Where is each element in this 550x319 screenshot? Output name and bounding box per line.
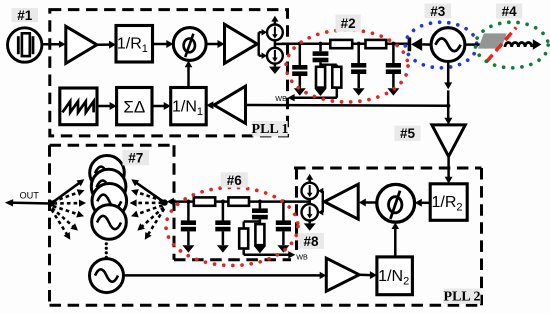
wire VCO down to feedback node	[447, 62, 450, 85]
PLL1 dashed boundary box	[50, 10, 288, 136]
ground	[294, 88, 306, 95]
output arrow #4	[532, 44, 534, 47]
buffer amp A2	[225, 24, 258, 63]
svg-text:#3: #3	[430, 4, 446, 19]
series resistor R1 of filter #6	[194, 197, 215, 205]
svg-text:WB: WB	[296, 253, 308, 262]
oscillator bank #7: stacked oscillators	[90, 156, 125, 191]
resistor Rb (to WB port), filter #6	[239, 229, 248, 249]
VCO #3	[431, 28, 465, 62]
label #6	[221, 172, 248, 187]
wire 1/R1 to phase detector	[153, 43, 168, 46]
label #1	[12, 8, 39, 22]
PLL2 dashed boundary (left edge of right section)	[295, 168, 298, 250]
wire A4 to 1/N2	[359, 273, 371, 276]
ground	[254, 246, 266, 253]
svg-text:#4: #4	[502, 4, 518, 19]
microstrip slab (gray parallelogram) #4	[478, 33, 507, 48]
wire PFD1 to buffer A2	[206, 43, 218, 46]
resistor Ra (to ground), filter #2	[316, 67, 325, 88]
svg-text:#8: #8	[303, 234, 319, 249]
fork wires A2 to charge pump CP1	[258, 32, 260, 55]
vertical ellipsis dots	[105, 242, 108, 245]
buffer amp A3 (left-pointing)	[324, 184, 358, 219]
wire 1/R2 to PFD2	[421, 202, 430, 205]
divider 1/N1	[171, 88, 207, 125]
wire A1 to 1/R1	[97, 43, 110, 46]
svg-text:#7: #7	[128, 151, 143, 166]
svg-text:ΣΔ: ΣΔ	[123, 97, 145, 116]
capacitor C3 of filter #2	[392, 44, 395, 64]
green dotted ellipse around #4	[475, 22, 548, 68]
loop filter #2 top wire	[282, 42, 408, 45]
label #5	[394, 126, 420, 141]
right fan: dashed selection arrows	[136, 192, 163, 201]
arrow into buffer #5	[444, 118, 452, 125]
reference oscillator (bottom of bank)	[90, 259, 124, 293]
sawtooth modulation source	[60, 88, 97, 125]
svg-text:#1: #1	[17, 8, 33, 23]
PLL2 dashed boundary (right + bottom edges)	[480, 168, 483, 305]
ground	[315, 89, 327, 96]
buffer amp A1	[66, 26, 97, 63]
left fan: dashed selection arrows	[53, 192, 80, 202]
OUT wire and arrow	[9, 201, 52, 204]
svg-text:OUT: OUT	[20, 191, 40, 201]
svg-text:#5: #5	[400, 126, 416, 141]
fork wires A3 to charge pump CP2	[322, 191, 324, 212]
jog wire to parallel resistor, filter #2	[321, 63, 337, 65]
svg-text:#2: #2	[341, 16, 356, 31]
label #4	[496, 4, 522, 19]
WB output wire of filter #6	[244, 254, 290, 257]
charge pump CP2 (current sources) #8	[306, 174, 313, 180]
wire crystal to buffer A1	[42, 43, 60, 46]
ground	[353, 88, 365, 95]
series resistor R1 of filter #2	[330, 40, 352, 48]
series capacitor of RC branch, filter #6	[259, 202, 262, 209]
ground	[387, 88, 399, 95]
svg-text:PLL 1: PLL 1	[252, 122, 289, 137]
capacitor C2 of filter #2	[357, 44, 360, 64]
left fan: solid arrow to top oscillator	[51, 182, 80, 203]
wire VCO to output network #4	[465, 43, 480, 46]
feedback buffer (left-pointing)	[214, 86, 246, 123]
series resistor R2 of filter #2	[366, 40, 387, 48]
inductor #4	[505, 42, 532, 47]
wire 1/N2 up to PFD2	[394, 228, 397, 257]
wire CP2 output into filter #6	[284, 200, 310, 203]
ground	[308, 221, 311, 224]
wire reference osc to buffer A4	[124, 274, 321, 277]
red dotted ellipse around filter #2	[286, 30, 408, 102]
series resistor R2 of filter #6	[228, 197, 249, 205]
ground	[217, 245, 229, 252]
ground	[274, 64, 277, 67]
feedback wire to PLL1 divider buffer	[246, 104, 449, 107]
resistor Rb (to WB port), filter #2	[332, 67, 341, 88]
label #8	[298, 233, 324, 249]
wire #5 to 1/R2	[447, 156, 450, 177]
ground	[277, 245, 289, 252]
blue dotted ellipse around VCO #3	[405, 22, 477, 68]
red dotted ellipse around filter #6	[166, 188, 298, 266]
node junction dots on filter #2	[298, 42, 302, 46]
wire feedback into 1/N1	[212, 104, 215, 107]
node junction dots on filter #6	[186, 200, 190, 204]
divider 1/R2	[430, 184, 467, 221]
capacitor C1 of filter #6	[187, 202, 190, 221]
sigma-delta modulator	[117, 88, 152, 125]
phase detector PFD1	[173, 28, 206, 61]
capacitor C1 of filter #2	[299, 44, 302, 65]
PLL2 dashed boundary (top of right section)	[294, 167, 482, 170]
wire 1/N1 up to PFD1	[187, 66, 190, 88]
left selection node	[48, 200, 54, 206]
filter #6 top wire with output arrow to oscillator bank	[173, 200, 285, 203]
label #7	[123, 150, 150, 165]
jog wire to parallel resistor, filter #6	[244, 220, 260, 222]
svg-text:#6: #6	[227, 173, 243, 188]
divider 1/R1	[116, 26, 153, 63]
right fan: solid arrow to top oscillator	[135, 182, 164, 203]
feedback node junction	[446, 104, 450, 108]
buffer amp A4	[326, 258, 359, 291]
capacitor C2 of filter #6	[222, 202, 225, 221]
series capacitor of RC branch, filter #2	[319, 44, 322, 52]
PLL2 dashed boundary (bottom of #6 box)	[174, 258, 291, 261]
capacitor C4 of filter #6	[282, 202, 285, 221]
resistor Ra (to ground), filter #6	[255, 224, 264, 245]
label #3	[425, 4, 452, 19]
diode at VCO input	[408, 37, 412, 51]
label #2	[336, 15, 361, 32]
charge pump CP1 (current sources)	[271, 16, 278, 22]
wire CP1 output to loop filter	[275, 42, 300, 45]
divider 1/N2	[377, 257, 413, 295]
PLL 1 label	[252, 121, 287, 136]
svg-text:PLL 2: PLL 2	[444, 290, 481, 305]
crystal oscillator #1	[8, 28, 42, 62]
red dashed tuning line #4	[486, 27, 516, 62]
svg-text:WB: WB	[275, 94, 287, 103]
wire PFD2 to charge pump buffer	[365, 201, 377, 204]
WB output wire of filter #2	[294, 96, 337, 99]
ground	[182, 245, 194, 252]
wire sawtooth to sigma-delta	[96, 105, 111, 108]
buffer amp #5 (down-pointing)	[432, 125, 465, 156]
right selection node	[161, 199, 167, 205]
PLL 2 label	[444, 289, 481, 304]
PLL2 dashed boundary (left section with oscillator bank box)	[48, 145, 51, 305]
phase detector PFD2	[377, 184, 415, 222]
wire sigma-delta to 1/N1	[152, 105, 165, 108]
